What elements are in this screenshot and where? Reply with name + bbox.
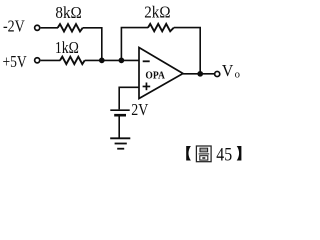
caption left lenticular bracket 【 bbox=[186, 146, 191, 161]
junction dot (8k branch joins summing node) bbox=[99, 58, 105, 64]
svg-text:2kΩ: 2kΩ bbox=[144, 3, 170, 22]
wire feedback: right of 2k resistor, corner down to output node bbox=[174, 28, 200, 74]
battery 2V negative plate (short thick) bbox=[114, 114, 126, 117]
caption right lenticular bracket 】 bbox=[237, 146, 242, 161]
resistor 2kΩ bbox=[148, 24, 174, 31]
wire from 8k resistor right, corner down to summing node bbox=[83, 28, 102, 61]
battery 2V positive plate (long) bbox=[110, 109, 129, 111]
wire from 1k resistor to op-amp inverting input bbox=[85, 59, 140, 61]
svg-text:1kΩ: 1kΩ bbox=[55, 38, 79, 57]
input terminal (open circle) -2V bbox=[35, 25, 40, 30]
junction dot (feedback joins output) bbox=[197, 71, 203, 77]
op-amp minus sign (inverting input mark) bbox=[143, 60, 150, 62]
svg-text:8kΩ: 8kΩ bbox=[55, 3, 81, 22]
junction dot (feedback joins summing node) bbox=[119, 58, 125, 64]
op-amp U1 triangle bbox=[139, 48, 183, 99]
op-amp plus sign (non-inverting input mark) bbox=[143, 86, 151, 88]
wire from -2V terminal to 8k resistor bbox=[41, 27, 58, 29]
svg-text:OPA: OPA bbox=[145, 70, 165, 82]
svg-text:45: 45 bbox=[216, 146, 232, 166]
wire feedback: up from summing node and right to 2k resistor bbox=[121, 28, 148, 61]
wire from +5V terminal to 1k resistor bbox=[41, 59, 61, 61]
output terminal (open circle) Vo bbox=[215, 71, 220, 76]
input terminal (open circle) +5V bbox=[35, 58, 40, 63]
caption CJK character 圖 (drawn) bbox=[196, 146, 211, 162]
svg-text:o: o bbox=[235, 69, 240, 81]
svg-text:-2V: -2V bbox=[3, 17, 25, 36]
wire from op-amp non-inverting input left and down to battery bbox=[119, 87, 139, 109]
wire from battery negative plate down to ground bbox=[118, 117, 120, 139]
resistor 8kΩ bbox=[58, 24, 83, 31]
ground bbox=[110, 137, 130, 139]
svg-text:2V: 2V bbox=[131, 100, 149, 119]
wire from op-amp output to Vo terminal bbox=[183, 73, 214, 75]
svg-text:V: V bbox=[222, 61, 234, 80]
svg-text:+5V: +5V bbox=[3, 52, 28, 71]
resistor 1kΩ bbox=[60, 57, 85, 64]
